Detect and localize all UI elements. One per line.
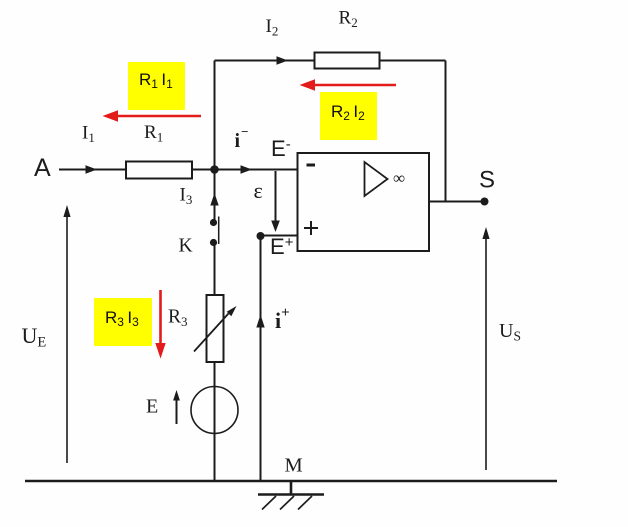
ground rail <box>25 480 557 483</box>
switch K contact bottom <box>210 239 217 246</box>
op-amp U1 body <box>298 153 430 251</box>
svg-text:E: E <box>146 396 158 418</box>
svg-text:M: M <box>285 455 303 477</box>
wire junction up to top rail <box>214 61 216 171</box>
wire R3 to ground rail through source E <box>214 362 216 481</box>
resistor R1 <box>126 162 192 179</box>
source E polarity arrow <box>176 399 178 424</box>
op-amp triangle symbol <box>365 162 388 196</box>
red arrow for R2I2 voltage <box>301 80 396 90</box>
wire top rail right of R2 <box>380 60 446 62</box>
svg-text:i+: i+ <box>275 305 290 333</box>
svg-text:US: US <box>499 320 521 344</box>
wire switch to R3 <box>214 244 216 295</box>
ground symbol M <box>290 481 293 495</box>
highlight box R1I1 <box>128 62 185 110</box>
wire E-plus node down to ground rail <box>260 236 262 481</box>
svg-text:E-: E- <box>271 136 291 161</box>
svg-text:∞: ∞ <box>393 169 405 188</box>
wire right vertical feedback <box>445 61 447 202</box>
wire R1 to op-amp minus input <box>192 169 298 171</box>
svg-text:A: A <box>34 154 51 182</box>
US measurement arrow <box>485 238 487 470</box>
svg-text:R1: R1 <box>144 122 163 145</box>
node junction at R1 output <box>210 165 219 174</box>
svg-text:UE: UE <box>22 323 47 351</box>
red arrow for R3I3 voltage <box>156 290 165 357</box>
arrowhead I3 pointing up <box>210 193 218 206</box>
resistor R2 <box>315 53 380 69</box>
svg-text:i−: i− <box>235 124 249 152</box>
arrowhead i-plus pointing up <box>256 315 264 328</box>
highlight box R3I3 <box>94 298 152 346</box>
svg-text:E+: E+ <box>270 234 294 259</box>
wire E-plus node to plus input <box>261 235 299 237</box>
op-amp plus input marker <box>304 227 318 229</box>
arrowhead I1 on wire A <box>86 165 98 174</box>
UE measurement arrow <box>66 216 68 463</box>
op-amp minus input marker <box>307 164 316 167</box>
node E-plus junction <box>257 232 265 240</box>
node S <box>481 198 489 206</box>
svg-text:I2: I2 <box>266 16 279 39</box>
svg-text:K: K <box>179 236 193 257</box>
svg-text:I3: I3 <box>180 185 193 208</box>
wire A to R1 <box>59 169 126 171</box>
source E circle <box>191 387 238 434</box>
svg-text:R3: R3 <box>168 307 188 330</box>
svg-text:ε: ε <box>254 178 263 203</box>
svg-text:R2: R2 <box>339 8 358 31</box>
wire op-amp output to S <box>429 201 484 203</box>
switch K contact top <box>210 219 217 226</box>
svg-text:S: S <box>479 167 495 194</box>
arrowhead I2 on top rail <box>277 56 289 65</box>
wire junction down to switch <box>214 170 216 220</box>
epsilon arrow <box>275 171 277 221</box>
switch K blade <box>218 217 220 245</box>
arrowhead i-minus toward op-amp <box>241 165 253 174</box>
resistor R3 variable <box>207 295 224 362</box>
highlight box R2I2 <box>320 92 377 140</box>
svg-text:I1: I1 <box>82 123 95 146</box>
red arrow for R1I1 voltage <box>104 111 201 121</box>
wire top rail left of R2 <box>215 60 315 62</box>
